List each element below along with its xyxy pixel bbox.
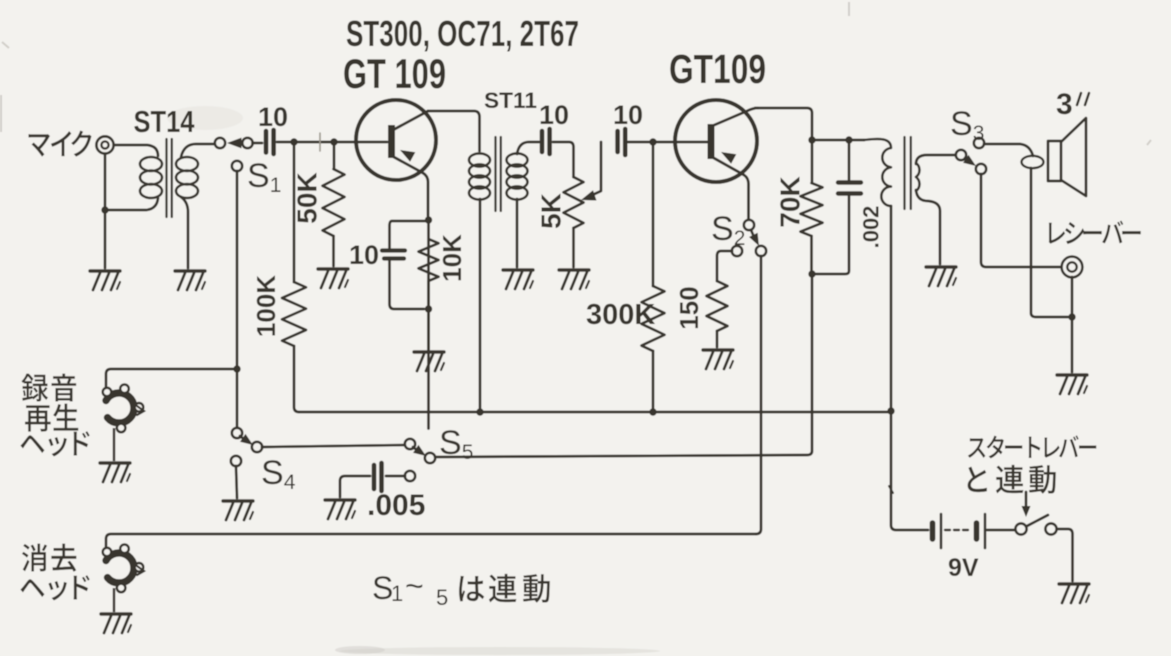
- wire jack sleeve down: [1071, 277, 1074, 313]
- label マイク (microphone): [28, 134, 49, 157]
- resistor R3 10K zigzag: [419, 220, 439, 429]
- ground T1 secondary: [175, 269, 205, 272]
- node 50K top: [330, 138, 337, 145]
- wire junction to T1 primary bottom: [105, 198, 158, 210]
- ground R4 5K: [559, 268, 589, 271]
- resistor R6 70K zigzag: [801, 183, 823, 236]
- node rail battery: [887, 407, 894, 414]
- svg-text:ST300, OC71, 2T67: ST300, OC71, 2T67: [346, 13, 579, 54]
- wire S2 left contact to R7 150: [717, 251, 732, 281]
- wire S1 lower contact down to S4: [236, 171, 239, 428]
- ground R7 150: [703, 348, 733, 351]
- transistor Q2 base bar: [708, 124, 715, 159]
- ground T3 secondary: [926, 265, 956, 268]
- node R6 bottom: [808, 270, 815, 277]
- svg-text:10: 10: [613, 100, 643, 130]
- wire erase head line: [106, 534, 756, 548]
- ground battery switch: [1059, 582, 1089, 585]
- svg-text:1: 1: [391, 581, 403, 606]
- transformer T1 core: [167, 139, 172, 217]
- resistor R1 100K zigzag: [282, 282, 306, 346]
- switch S3 arm: [965, 158, 969, 161]
- node S1 line / head junction: [233, 365, 240, 372]
- transformer T2 core: [496, 137, 501, 211]
- wiper arrowhead: [581, 190, 597, 200]
- wire C4 to Q2 base: [628, 141, 707, 144]
- svg-text:3: 3: [1056, 88, 1073, 121]
- node R3 bottom: [425, 305, 432, 312]
- transformer T2 ST11 primary winding: [469, 153, 490, 166]
- wire S1 common to C1: [253, 142, 263, 145]
- wire S3 lower contact down to receiver: [981, 174, 1061, 267]
- capacitor C5 .002 plates: [838, 180, 861, 184]
- wire negative supply rail: [299, 411, 891, 414]
- wire T2 secondary top to C3: [517, 142, 539, 154]
- ground emitter network: [414, 350, 444, 353]
- wire R6 node down to S5 line: [436, 274, 812, 457]
- battery dashed link: [945, 529, 971, 531]
- start lever switch blade: [1027, 515, 1048, 526]
- switch S1 contact from T1: [215, 138, 225, 148]
- transformer T2 secondary winding: [507, 153, 528, 166]
- svg-text:.002: .002: [859, 206, 884, 249]
- svg-text:10: 10: [258, 102, 288, 132]
- transistor Q1 emitter line: [392, 156, 428, 216]
- wire R3/C2 node to ground: [427, 281, 430, 349]
- wire battery to start switch: [987, 529, 1015, 532]
- transformer T1 ST14 primary winding: [140, 157, 162, 171]
- wire T3 secondary top to S3: [916, 155, 956, 164]
- transistor Q2 emitter line: [712, 157, 749, 220]
- microphone jack (マイク): [96, 136, 113, 153]
- wire junction to record head: [106, 369, 237, 388]
- wire node to ground: [1071, 317, 1074, 372]
- capacitor C3 10uF plates: [540, 131, 545, 152]
- transistor Q2 emitter arrowhead (PNP): [721, 152, 736, 164]
- label と連動 (linked): [968, 467, 987, 492]
- switch S4 arm: [240, 436, 245, 440]
- speaker coupling loop: [1022, 156, 1044, 168]
- switch S4 right contact: [252, 442, 262, 452]
- svg-text:GT 109: GT 109: [343, 50, 446, 97]
- start lever switch right contact: [1045, 523, 1056, 534]
- wire node to R6 70K: [811, 140, 814, 183]
- svg-text:10K: 10K: [437, 234, 467, 282]
- wire rail node down to battery: [891, 411, 928, 530]
- switch S2 lower contact: [756, 246, 766, 256]
- svg-text:70K: 70K: [775, 176, 806, 227]
- switch S3 lower contact (receiver): [976, 164, 986, 174]
- node 100K top: [290, 138, 297, 145]
- transformer T3 core: [905, 137, 911, 209]
- wire node to C5 top: [848, 140, 851, 180]
- start lever switch left contact: [1015, 523, 1026, 534]
- wire R7 bottom to ground: [716, 331, 719, 347]
- wire mic sleeve down: [104, 154, 107, 268]
- svg-text:50K: 50K: [292, 172, 323, 223]
- svg-text:GT109: GT109: [669, 46, 766, 92]
- wire emitter node left to C2: [390, 221, 429, 248]
- annotation arrow (start lever): [1025, 492, 1028, 508]
- switch S2 left contact: [732, 246, 742, 256]
- wire C5 bottom to node: [812, 196, 849, 274]
- record/play head symbol: [103, 385, 144, 433]
- transistor Q1 circle: [356, 100, 436, 180]
- resistor R5 300K zigzag: [642, 286, 665, 351]
- resistor R2 50K zigzag: [323, 169, 345, 236]
- wire T2 secondary bottom to ground: [516, 199, 519, 267]
- switch S3 upper contact (speaker): [974, 138, 984, 148]
- switch S4 common contact: [232, 428, 242, 438]
- erase head symbol: [103, 545, 144, 593]
- svg-text:5: 5: [436, 585, 448, 610]
- wire S2 lower contact down to erase head line: [756, 256, 761, 534]
- wire C1 to Q1 base: [277, 141, 387, 144]
- wire T2 primary bottom to rail: [479, 199, 482, 412]
- ground record head: [100, 461, 130, 464]
- switch S5 common contact: [405, 439, 415, 449]
- wire Q2 collector top rail: [755, 108, 812, 137]
- wire R5 bottom to rail: [652, 351, 655, 412]
- speaker 3in driver: [1048, 141, 1061, 181]
- wire R4 bottom to ground: [572, 228, 575, 267]
- wire C2 bottom to node: [390, 260, 425, 309]
- svg-text:ST14: ST14: [134, 104, 196, 139]
- transistor Q1 emitter arrowhead (PNP): [400, 150, 415, 162]
- capacitor C1 10uF plates: [264, 131, 269, 153]
- label は連動 (S1-5 linked): [459, 576, 484, 601]
- capacitor C4 10uF plates: [615, 131, 620, 152]
- switch S1 arm arrowhead: [227, 138, 242, 149]
- node .002 top: [845, 136, 852, 143]
- wire S4 lower contact to ground: [236, 466, 237, 498]
- capacitor C2 10uF plates (bypass): [382, 248, 405, 252]
- wire loop down to ground node: [1031, 168, 1068, 317]
- switch S1 common contact: [242, 138, 252, 148]
- node receiver/speaker ground: [1068, 313, 1075, 320]
- tick on battery wire: [889, 486, 893, 493]
- label 録音 (record): [21, 374, 48, 402]
- ground S4: [223, 499, 253, 502]
- wire R2 bottom to ground: [332, 236, 335, 266]
- receiver jack (レシーバー): [1062, 257, 1083, 278]
- battery B1 9V cell1: [930, 523, 936, 539]
- wire node to .002 node: [812, 139, 864, 142]
- label スタートレバー (start lever): [968, 438, 985, 458]
- wire R6 bottom to node: [810, 236, 813, 274]
- wire node to R1 100K: [293, 142, 296, 282]
- switch S5 lower contact: [405, 471, 415, 481]
- switch S2 arm: [751, 230, 754, 237]
- transistor Q1 collector line: [393, 111, 428, 130]
- wire R1 bottom to supply rail: [294, 346, 299, 412]
- wire mic tip to T1 primary: [114, 145, 158, 156]
- label ヘッド (erase head): [20, 579, 44, 597]
- switch S1 arm wire: [239, 142, 244, 145]
- ground R2 50K: [318, 267, 348, 270]
- svg-text:10: 10: [539, 100, 569, 130]
- wire T3 primary bottom to rail: [890, 206, 893, 410]
- switch S3 common contact: [956, 150, 966, 160]
- svg-text:.005: .005: [367, 489, 425, 522]
- transistor Q2 circle: [675, 100, 757, 182]
- svg-text:5K: 5K: [536, 193, 567, 229]
- node Q2 base / R5: [649, 138, 656, 145]
- label レシーバー (receiver): [1049, 223, 1065, 244]
- node 70K top: [808, 136, 815, 143]
- svg-text:ST11: ST11: [484, 88, 537, 113]
- wire T3 secondary bottom to ground: [916, 190, 940, 264]
- switch S5 right contact: [425, 453, 435, 463]
- capacitor C6 .005 plates: [372, 465, 377, 489]
- switch S5 arm: [413, 447, 418, 451]
- switch S1 lower contact (to head circuit): [232, 161, 242, 171]
- svg-text:100K: 100K: [251, 275, 281, 337]
- svg-text:9V: 9V: [948, 554, 979, 582]
- transformer T3 secondary winding: [916, 163, 919, 191]
- wire C3 to R4 top: [553, 142, 574, 177]
- ground mic: [90, 269, 120, 272]
- label 消去 (erase): [22, 544, 47, 572]
- transformer T1 secondary winding: [176, 157, 198, 171]
- svg-text:~: ~: [405, 568, 424, 604]
- wire T1 secondary top to S1: [181, 144, 214, 157]
- transistor Q1 base bar: [388, 125, 395, 158]
- svg-text:300K: 300K: [586, 299, 655, 331]
- faint tick on base wire: [319, 133, 321, 151]
- wire C6 to ground: [340, 476, 370, 497]
- wire S5 lower contact to C6: [386, 475, 405, 478]
- wiper wire of R4 to C4: [588, 142, 601, 197]
- transformer T3 primary winding: [864, 139, 891, 206]
- node rail R5 300K: [649, 408, 656, 415]
- label 再生 (playback): [25, 405, 51, 431]
- ground receiver: [1057, 373, 1087, 376]
- node mic/T1 junction: [101, 206, 108, 213]
- ground T2 secondary: [503, 268, 533, 271]
- potentiometer R4 5K zigzag: [564, 177, 584, 228]
- battery B1 9V cell2: [974, 523, 980, 539]
- wire node to R2 50K: [333, 142, 336, 169]
- ground erase head: [101, 612, 131, 615]
- wire S3 upper contact to speaker loop: [984, 144, 1033, 156]
- wire Q1 collector to T2 primary: [428, 111, 480, 151]
- ground C6 .005: [325, 498, 355, 501]
- resistor R7 150 zigzag: [707, 281, 728, 331]
- wire T1 secondary bottom to ground: [181, 197, 188, 268]
- node rail T2 primary: [476, 408, 483, 415]
- node Q1 emitter top: [425, 216, 432, 223]
- label ヘッド (head): [20, 435, 44, 453]
- wire S4 to S5: [262, 445, 405, 447]
- svg-text:10: 10: [349, 240, 379, 270]
- transistor Q2 collector line: [712, 108, 758, 126]
- wire switch to ground: [1057, 529, 1073, 581]
- wire node to R5 300K: [652, 142, 655, 286]
- svg-text:150: 150: [674, 286, 704, 329]
- switch S4 lower contact: [231, 456, 241, 466]
- switch S2 common contact (Q2 emitter): [744, 220, 754, 230]
